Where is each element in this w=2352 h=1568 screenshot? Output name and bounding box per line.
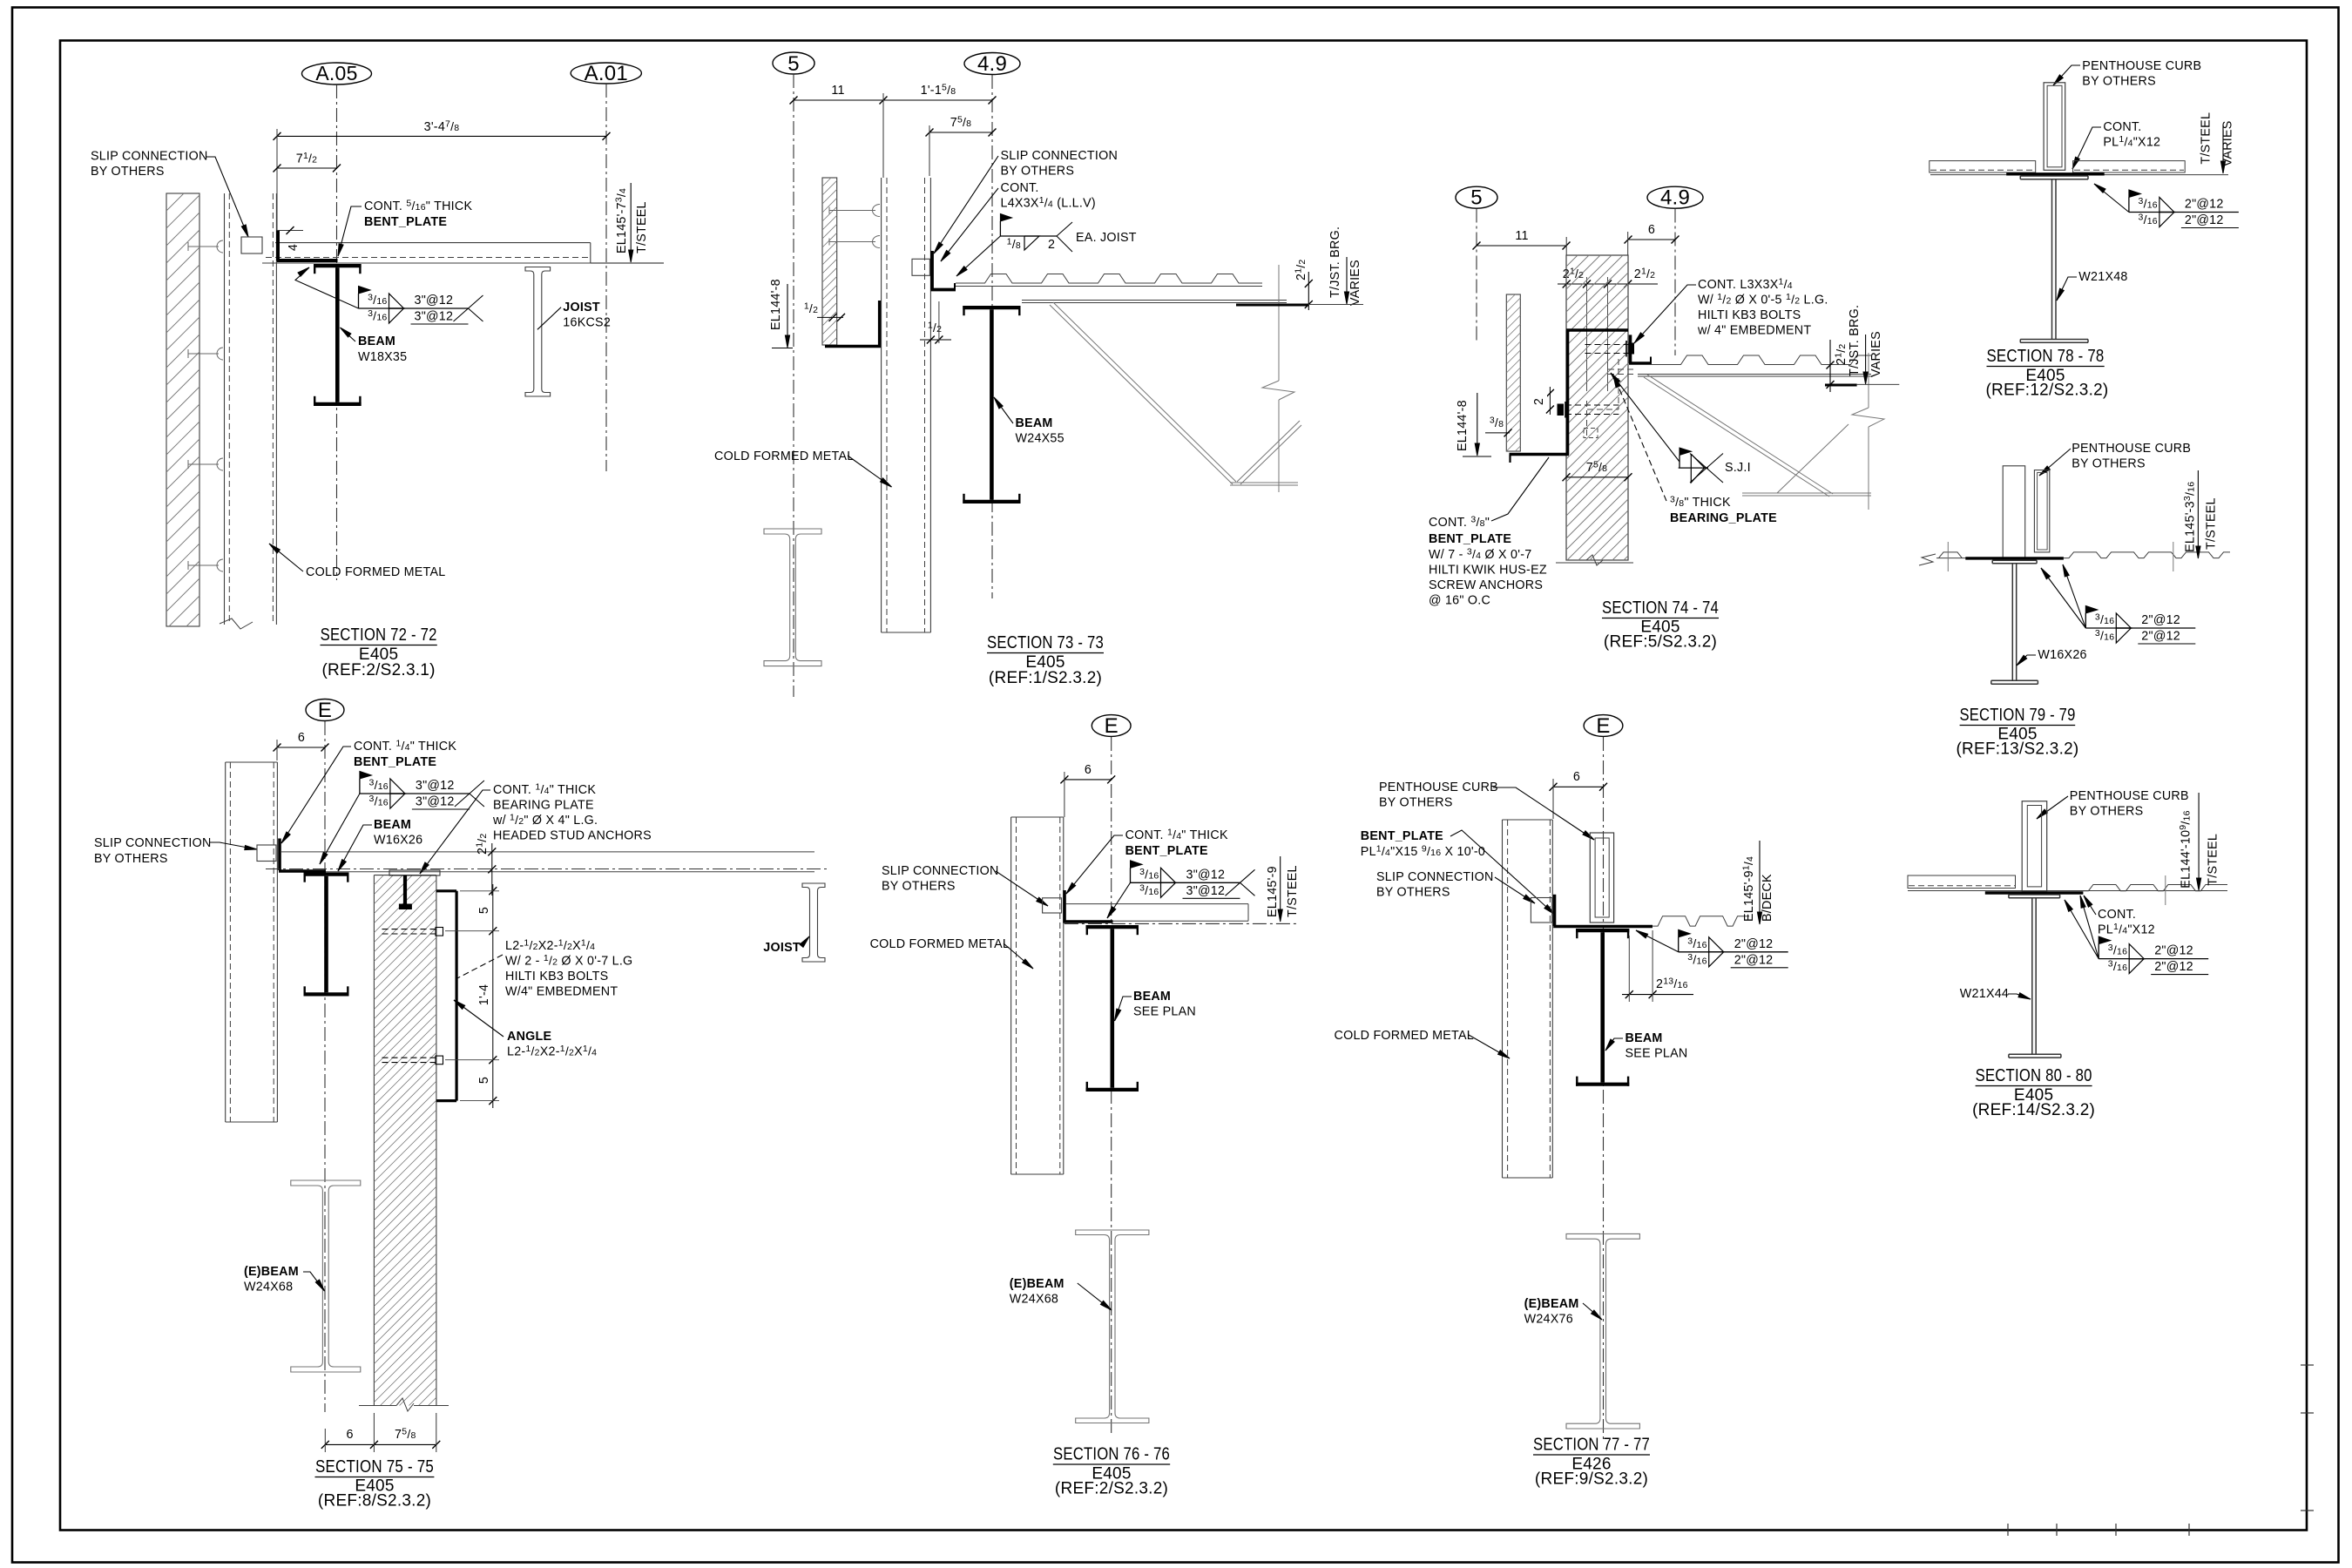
dimension 2 bbox=[1549, 387, 1551, 415]
svg-text:SEE PLAN: SEE PLAN bbox=[1625, 1047, 1688, 1061]
dimension 3'-4 7/8 bbox=[277, 135, 606, 137]
dimension 6 bbox=[277, 747, 325, 748]
svg-text:E: E bbox=[1105, 714, 1119, 738]
svg-text:SECTION 78 - 78: SECTION 78 - 78 bbox=[1987, 347, 2105, 366]
svg-text:5: 5 bbox=[477, 1077, 491, 1084]
svg-text:2"@12: 2"@12 bbox=[2185, 213, 2224, 227]
svg-text:11: 11 bbox=[1515, 229, 1528, 243]
svg-text:T/STEEL: T/STEEL bbox=[2205, 497, 2219, 550]
svg-text:BENT_PLATE: BENT_PLATE bbox=[364, 215, 447, 229]
svg-text:SECTION 80 - 80: SECTION 80 - 80 bbox=[1976, 1066, 2092, 1085]
svg-text:3"@12: 3"@12 bbox=[416, 795, 455, 809]
weld symbol 3/16 2@12 bbox=[1679, 929, 1691, 937]
grid bubble E bbox=[1092, 715, 1131, 737]
svg-text:W24X55: W24X55 bbox=[1016, 432, 1064, 446]
weld symbol 3/16 2@12 bbox=[2099, 936, 2111, 944]
deck right flutes bbox=[2083, 885, 2227, 891]
svg-text:(REF:8/S2.3.2): (REF:8/S2.3.2) bbox=[318, 1492, 431, 1511]
grid line 5 bbox=[793, 74, 794, 697]
slip connection box bbox=[1531, 898, 1551, 923]
masonry wall (hatched) bbox=[1566, 255, 1628, 560]
svg-text:BY OTHERS: BY OTHERS bbox=[1376, 886, 1450, 900]
cold formed metal wall bbox=[225, 762, 226, 1122]
dimension 7 5/8 bbox=[1566, 476, 1628, 478]
grid line 5 bbox=[1476, 209, 1477, 341]
cold formed metal stud wall bbox=[224, 193, 226, 625]
svg-text:E: E bbox=[318, 699, 332, 722]
grid line 4.9 bbox=[991, 75, 993, 598]
dimension 6 bbox=[1064, 779, 1112, 781]
angle L3X3X1/4 bbox=[1629, 335, 1632, 363]
svg-text:EL144'-8: EL144'-8 bbox=[1456, 400, 1470, 451]
svg-text:PENTHOUSE CURB: PENTHOUSE CURB bbox=[2070, 789, 2189, 803]
grid bubble A.01 bbox=[571, 63, 641, 84]
grid bubble E bbox=[1584, 715, 1623, 737]
svg-text:(REF:9/S2.3.2): (REF:9/S2.3.2) bbox=[1535, 1470, 1648, 1489]
dimension 7 1/2 bbox=[277, 167, 337, 169]
roof deck strips bbox=[1930, 161, 2036, 172]
section cut line with break bbox=[1278, 265, 1280, 381]
slip connection box bbox=[1043, 898, 1062, 913]
svg-text:(E)BEAM: (E)BEAM bbox=[1010, 1277, 1064, 1291]
svg-text:@ 16" O.C: @ 16" O.C bbox=[1429, 594, 1490, 608]
leader to slip connection bbox=[206, 157, 248, 237]
svg-text:3"@12: 3"@12 bbox=[415, 294, 454, 308]
svg-text:(REF:2/S2.3.2): (REF:2/S2.3.2) bbox=[1055, 1480, 1168, 1498]
joist 16KCS2 profile bbox=[525, 267, 551, 397]
svg-text:(E)BEAM: (E)BEAM bbox=[244, 1265, 299, 1279]
svg-text:EL144'-109/16: EL144'-109/16 bbox=[2178, 810, 2193, 888]
svg-text:3'-47/8: 3'-47/8 bbox=[424, 119, 460, 135]
cont 3/8 bent plate (lower) bbox=[825, 345, 881, 348]
svg-text:(REF:5/S2.3.2): (REF:5/S2.3.2) bbox=[1604, 633, 1717, 652]
beam W24X55 cut section bbox=[963, 306, 1020, 309]
svg-text:HILTI KB3 BOLTS: HILTI KB3 BOLTS bbox=[505, 970, 608, 983]
svg-text:BENT_PLATE: BENT_PLATE bbox=[1125, 844, 1208, 858]
svg-text:W21X48: W21X48 bbox=[2078, 270, 2127, 284]
ghost beam beyond bbox=[764, 529, 821, 666]
svg-text:SLIP CONNECTION: SLIP CONNECTION bbox=[94, 836, 212, 850]
T/steel dash-dot line bbox=[1064, 923, 1299, 924]
sheathing strip (hatched) bbox=[822, 178, 837, 345]
svg-text:T/STEEL: T/STEEL bbox=[1286, 865, 1300, 917]
svg-text:BY OTHERS: BY OTHERS bbox=[94, 852, 168, 866]
metal roof deck flutes bbox=[1652, 916, 1749, 926]
svg-text:EL145'-9: EL145'-9 bbox=[1266, 866, 1280, 917]
weld symbol 3/16 2@12 bbox=[2085, 606, 2098, 614]
svg-text:COLD FORMED METAL: COLD FORMED METAL bbox=[714, 449, 854, 463]
svg-text:BEAM: BEAM bbox=[358, 335, 395, 348]
svg-text:2"@12: 2"@12 bbox=[1734, 953, 1774, 967]
svg-text:CONT.: CONT. bbox=[2103, 120, 2141, 134]
joist diagonals bbox=[1644, 377, 1829, 497]
bent plate 1/4 thick bbox=[1063, 890, 1066, 923]
svg-text:6: 6 bbox=[346, 1428, 353, 1442]
svg-text:JOIST: JOIST bbox=[563, 301, 600, 314]
svg-text:1'-4: 1'-4 bbox=[477, 984, 491, 1005]
svg-text:BY OTHERS: BY OTHERS bbox=[1379, 796, 1453, 810]
svg-text:SLIP CONNECTION: SLIP CONNECTION bbox=[882, 864, 999, 878]
roof deck strip bbox=[1066, 903, 1248, 905]
svg-text:SECTION 73 - 73: SECTION 73 - 73 bbox=[987, 633, 1104, 652]
cont plate PL1/4x12 bbox=[1985, 891, 2084, 894]
svg-text:4.9: 4.9 bbox=[977, 52, 1007, 76]
svg-text:SECTION 72 - 72: SECTION 72 - 72 bbox=[321, 625, 437, 645]
beam W16X26 cut section bbox=[304, 872, 349, 875]
roof deck bbox=[280, 851, 814, 853]
dimension 11 and 1'-1 5/8 bbox=[794, 99, 992, 101]
svg-text:BEAM: BEAM bbox=[1625, 1031, 1663, 1045]
beam W21X44 outline bbox=[2009, 894, 2060, 896]
hidden bearing plate lines bbox=[1608, 368, 1635, 370]
svg-text:E: E bbox=[1596, 714, 1610, 738]
svg-text:VARIES: VARIES bbox=[1348, 260, 1362, 306]
grid line E bbox=[1603, 737, 1605, 1439]
svg-text:(REF:13/S2.3.2): (REF:13/S2.3.2) bbox=[1956, 740, 2078, 759]
T/steel datum line bbox=[591, 262, 664, 264]
svg-text:SLIP CONNECTION: SLIP CONNECTION bbox=[91, 150, 208, 164]
svg-text:BY OTHERS: BY OTHERS bbox=[91, 165, 165, 179]
svg-text:w/ 4" EMBEDMENT: w/ 4" EMBEDMENT bbox=[1697, 324, 1811, 338]
svg-text:2: 2 bbox=[1532, 398, 1546, 405]
svg-text:SECTION 79 - 79: SECTION 79 - 79 bbox=[1960, 706, 2076, 725]
cold formed metal wall bbox=[1010, 817, 1012, 1174]
svg-text:S.J.I: S.J.I bbox=[1725, 461, 1751, 475]
svg-text:BENT_PLATE: BENT_PLATE bbox=[1361, 829, 1443, 843]
svg-text:4: 4 bbox=[287, 244, 301, 251]
roof deck strip left bbox=[1908, 875, 2016, 889]
dimension 11 bbox=[1477, 245, 1566, 247]
svg-text:SLIP CONNECTION: SLIP CONNECTION bbox=[1376, 870, 1494, 884]
cont 3/8 bent plate wrapping wall bbox=[1566, 328, 1628, 332]
svg-text:COLD FORMED METAL: COLD FORMED METAL bbox=[306, 565, 445, 579]
svg-text:ANGLE: ANGLE bbox=[507, 1030, 551, 1044]
svg-text:16KCS2: 16KCS2 bbox=[563, 316, 611, 330]
svg-text:EA. JOIST: EA. JOIST bbox=[1076, 231, 1137, 245]
svg-text:2"@12: 2"@12 bbox=[2154, 960, 2193, 974]
deck bearing lines bbox=[1022, 300, 1287, 301]
svg-text:BEARING_PLATE: BEARING_PLATE bbox=[1670, 511, 1777, 525]
penthouse curb bbox=[2022, 801, 2047, 891]
deck right flutes bbox=[2064, 552, 2230, 558]
weld symbol 3/16 3@12 bbox=[1131, 861, 1143, 868]
svg-text:BY OTHERS: BY OTHERS bbox=[2072, 457, 2146, 471]
dimension 6 bbox=[1553, 786, 1604, 787]
svg-text:BY OTHERS: BY OTHERS bbox=[1001, 165, 1075, 179]
ghost existing beam W24X76 bbox=[1566, 1233, 1639, 1429]
svg-text:BY OTHERS: BY OTHERS bbox=[882, 880, 956, 894]
svg-text:2: 2 bbox=[1048, 238, 1055, 252]
weld symbol 3/16 2@12 bbox=[2129, 190, 2141, 198]
deck bearing lines bbox=[1638, 374, 1871, 375]
svg-text:A.01: A.01 bbox=[585, 62, 628, 85]
dimensions 5 1'-4 5 bbox=[492, 884, 494, 1108]
cold formed metal wall bbox=[881, 178, 882, 632]
right labels 2 1/2 T/JST BRG VARIES bbox=[1829, 340, 1831, 392]
metal roof deck bbox=[1652, 355, 1871, 365]
dimension 6 bbox=[1628, 239, 1675, 240]
svg-text:SEE PLAN: SEE PLAN bbox=[1133, 1005, 1196, 1019]
wall bottom break bbox=[1556, 562, 1633, 564]
svg-text:(REF:2/S2.3.1): (REF:2/S2.3.1) bbox=[321, 661, 435, 679]
angle assembly at pier bbox=[436, 889, 456, 892]
svg-text:BENT_PLATE: BENT_PLATE bbox=[1429, 532, 1511, 546]
beam cut section bbox=[1086, 925, 1139, 929]
weld symbol 3/16 3@12 bbox=[360, 772, 372, 780]
svg-text:W24X76: W24X76 bbox=[1524, 1313, 1573, 1327]
headed stud anchor bbox=[403, 875, 407, 904]
bent plate 1/4 thick x long bbox=[1553, 895, 1557, 926]
deck left with break bbox=[1936, 558, 2003, 559]
svg-text:HEADED STUD ANCHORS: HEADED STUD ANCHORS bbox=[493, 829, 652, 843]
svg-text:T/JST. BRG.: T/JST. BRG. bbox=[1848, 305, 1862, 376]
svg-text:4.9: 4.9 bbox=[1660, 186, 1690, 210]
svg-text:JOIST: JOIST bbox=[763, 941, 801, 955]
svg-text:W21X44: W21X44 bbox=[1960, 987, 2009, 1001]
beam W21X48 outline bbox=[2020, 175, 2088, 177]
concrete pier (hatched) bbox=[373, 875, 375, 1406]
grid bubble 4.9 bbox=[1647, 186, 1703, 208]
svg-text:3"@12: 3"@12 bbox=[415, 310, 454, 324]
svg-text:6: 6 bbox=[1085, 763, 1092, 777]
svg-text:BY OTHERS: BY OTHERS bbox=[2070, 805, 2144, 819]
svg-text:w/ 1/2" Ø X 4" L.G.: w/ 1/2" Ø X 4" L.G. bbox=[492, 813, 598, 828]
pier bottom break line bbox=[359, 1405, 396, 1407]
svg-text:CONT. L3X3X1/4: CONT. L3X3X1/4 bbox=[1698, 277, 1793, 293]
weld symbol 1/8 2 EA JOIST bbox=[1000, 214, 1011, 222]
svg-text:EL144'-8: EL144'-8 bbox=[769, 279, 783, 330]
hilti bolts (hidden) bbox=[382, 929, 436, 930]
svg-text:2"@12: 2"@12 bbox=[2154, 944, 2193, 958]
svg-text:COLD FORMED METAL: COLD FORMED METAL bbox=[870, 937, 1010, 951]
section cut line with break bbox=[1868, 353, 1869, 408]
slip connection box bbox=[257, 845, 276, 862]
grid line A.05 bbox=[336, 84, 338, 580]
svg-text:W/4" EMBEDMENT: W/4" EMBEDMENT bbox=[505, 985, 618, 999]
T/steel datum line bbox=[1930, 174, 2228, 176]
bent plate 1/4 thick bbox=[278, 839, 281, 871]
T/steel dash-dot line bbox=[266, 868, 828, 870]
cont plate PL1/4x12 bbox=[1965, 557, 2064, 559]
svg-text:T/STEEL: T/STEEL bbox=[2200, 112, 2213, 165]
penthouse curb bbox=[1590, 833, 1613, 923]
grid bubble 4.9 bbox=[964, 53, 1020, 75]
svg-text:A.05: A.05 bbox=[315, 62, 357, 84]
S.J.I weld symbol bbox=[1680, 448, 1692, 455]
svg-text:W24X68: W24X68 bbox=[1010, 1293, 1058, 1307]
metal roof deck bbox=[956, 274, 1262, 284]
penthouse curb right bbox=[2034, 470, 2049, 552]
bottom dimensions 6 and 7 5/8 bbox=[325, 1443, 436, 1445]
beam W16X26 outline bbox=[1992, 559, 2037, 561]
svg-text:BENT_PLATE: BENT_PLATE bbox=[354, 755, 436, 769]
ghost existing beam W24X68 bbox=[1076, 1230, 1149, 1423]
svg-text:CONT.: CONT. bbox=[1001, 181, 1039, 195]
svg-text:W24X68: W24X68 bbox=[244, 1281, 293, 1294]
svg-text:W/ 7 - 3/4 Ø X 0'-7: W/ 7 - 3/4 Ø X 0'-7 bbox=[1429, 547, 1531, 563]
beam W18X35 cut section bbox=[314, 264, 362, 267]
svg-text:3"@12: 3"@12 bbox=[416, 779, 455, 793]
svg-text:W18X35: W18X35 bbox=[358, 350, 407, 364]
ghost existing beam W24X68 bbox=[291, 1180, 361, 1372]
svg-text:T/JST. BRG.: T/JST. BRG. bbox=[1328, 226, 1342, 298]
dimension 4 (bent plate leg) bbox=[277, 230, 303, 232]
svg-text:BY OTHERS: BY OTHERS bbox=[2082, 75, 2156, 89]
grid bubble 5 bbox=[1456, 186, 1497, 208]
svg-text:(E)BEAM: (E)BEAM bbox=[1524, 1297, 1579, 1311]
svg-text:W16X26: W16X26 bbox=[374, 834, 422, 848]
svg-text:6: 6 bbox=[298, 731, 305, 745]
svg-text:3"@12: 3"@12 bbox=[1186, 884, 1226, 898]
joist profile right bbox=[802, 883, 825, 962]
svg-text:BEAM: BEAM bbox=[1133, 990, 1171, 1004]
grid bubble E bbox=[306, 700, 344, 721]
svg-text:W16X26: W16X26 bbox=[2038, 648, 2086, 662]
weld symbol 3/16 both sides 3@12 bbox=[359, 287, 371, 294]
svg-text:PENTHOUSE CURB: PENTHOUSE CURB bbox=[2072, 442, 2191, 456]
T/steel datum line bbox=[1908, 890, 2227, 892]
svg-text:(REF:14/S2.3.2): (REF:14/S2.3.2) bbox=[1972, 1101, 2095, 1119]
wall break mark bbox=[220, 618, 253, 629]
svg-text:5: 5 bbox=[477, 907, 491, 914]
wall sheathing (hatched) bbox=[166, 193, 199, 626]
svg-text:BEAM: BEAM bbox=[374, 818, 411, 832]
upper hilti bolt (hidden) bbox=[1585, 344, 1633, 346]
svg-text:W/ 2 - 1/2 Ø X 0'-7 L.G: W/ 2 - 1/2 Ø X 0'-7 L.G bbox=[505, 953, 632, 969]
svg-text:11: 11 bbox=[831, 84, 844, 98]
svg-text:6: 6 bbox=[1648, 223, 1655, 237]
joist diagonals and bottom chord bbox=[1050, 305, 1233, 484]
svg-text:HILTI KWIK HUS-EZ: HILTI KWIK HUS-EZ bbox=[1429, 564, 1547, 578]
slip connection box bbox=[241, 237, 262, 253]
roof deck edge bbox=[275, 242, 591, 244]
svg-text:B/DECK: B/DECK bbox=[1761, 874, 1774, 922]
svg-text:COLD FORMED METAL: COLD FORMED METAL bbox=[1335, 1029, 1474, 1043]
svg-text:SECTION 74 - 74: SECTION 74 - 74 bbox=[1602, 598, 1719, 618]
bearing plate bbox=[389, 870, 440, 875]
grid bubble 5 bbox=[773, 52, 814, 74]
lower hilti bolt (hidden) bbox=[1565, 404, 1619, 406]
dimensions 2 1/2 - 2 1/2 bbox=[1558, 283, 1658, 285]
angle L4X3X1/4 bbox=[930, 251, 934, 290]
svg-text:(REF:1/S2.3.2): (REF:1/S2.3.2) bbox=[989, 669, 1102, 687]
svg-text:2"@12: 2"@12 bbox=[2141, 630, 2180, 644]
svg-text:SLIP CONNECTION: SLIP CONNECTION bbox=[1001, 149, 1119, 163]
svg-text:BEAM: BEAM bbox=[1016, 416, 1053, 430]
penthouse curb left bbox=[2003, 466, 2025, 558]
svg-text:SECTION 76 - 76: SECTION 76 - 76 bbox=[1053, 1445, 1170, 1464]
cold formed metal wall bbox=[1502, 820, 1504, 1178]
slip connection box bbox=[912, 259, 929, 275]
grid line 4.9 bbox=[1674, 209, 1676, 356]
svg-text:2"@12: 2"@12 bbox=[2185, 198, 2224, 212]
grid line E bbox=[1111, 737, 1112, 1433]
svg-text:1'-15/8: 1'-15/8 bbox=[921, 83, 956, 98]
svg-text:SECTION 77 - 77: SECTION 77 - 77 bbox=[1533, 1436, 1650, 1455]
svg-text:2"@12: 2"@12 bbox=[2141, 613, 2180, 627]
svg-text:BEARING PLATE: BEARING PLATE bbox=[493, 799, 594, 813]
dimension 7 5/8 bbox=[929, 132, 992, 133]
svg-text:PENTHOUSE CURB: PENTHOUSE CURB bbox=[2082, 59, 2201, 73]
svg-text:PENTHOUSE CURB: PENTHOUSE CURB bbox=[1379, 781, 1498, 794]
svg-text:T/STEEL: T/STEEL bbox=[635, 201, 649, 253]
svg-text:5: 5 bbox=[1470, 186, 1483, 210]
svg-text:HILTI KB3 BOLTS: HILTI KB3 BOLTS bbox=[1698, 308, 1801, 322]
bent plate 5/16 thick bbox=[276, 231, 280, 261]
svg-text:(REF:12/S2.3.2): (REF:12/S2.3.2) bbox=[1985, 382, 2108, 400]
beam cut section bbox=[1576, 929, 1629, 932]
svg-text:5: 5 bbox=[787, 52, 800, 76]
wall anchor bolts bbox=[829, 210, 875, 212]
grid line A.01 bbox=[605, 84, 607, 471]
svg-text:3"@12: 3"@12 bbox=[1186, 868, 1226, 882]
stud clips bbox=[188, 246, 219, 247]
svg-text:SECTION 75 - 75: SECTION 75 - 75 bbox=[315, 1457, 434, 1477]
svg-text:SCREW ANCHORS: SCREW ANCHORS bbox=[1429, 578, 1543, 592]
svg-text:VARIES: VARIES bbox=[1869, 331, 1883, 377]
furring strip (hatched) bbox=[1506, 294, 1520, 451]
svg-text:6: 6 bbox=[1573, 770, 1580, 784]
penthouse curb bbox=[2044, 83, 2065, 171]
grid line E bbox=[324, 721, 326, 1412]
cont plate PL1/4x12 bbox=[2006, 172, 2105, 175]
svg-text:CONT.: CONT. bbox=[2098, 908, 2136, 922]
svg-text:2"@12: 2"@12 bbox=[1734, 937, 1774, 951]
svg-text:T/STEEL: T/STEEL bbox=[2206, 834, 2220, 886]
grid bubble A.05 bbox=[302, 63, 372, 84]
